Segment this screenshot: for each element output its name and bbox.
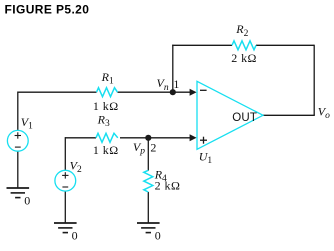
- wire V2 to R3 rail: [64, 137, 66, 170]
- resistor R3 zigzag: [96, 133, 118, 142]
- wire Vp node to R4: [147, 138, 149, 171]
- resistor R4 zigzag: [144, 170, 153, 192]
- wire V1 top to R1 left lead: [18, 91, 97, 93]
- svg-text:0: 0: [155, 228, 161, 242]
- svg-text:0: 0: [72, 228, 78, 242]
- ground (V1): [7, 188, 30, 198]
- wire R3 right lead to op-amp noninverting input: [120, 137, 190, 139]
- resistor R2 zigzag: [232, 41, 256, 50]
- wire feedback rail left of R2: [172, 44, 232, 46]
- plus/minus inside V1: [15, 132, 21, 147]
- wire V1 to ground: [17, 151, 19, 188]
- wire V1 vertical up: [17, 92, 19, 131]
- source V2 circle: [55, 170, 76, 191]
- minus sign at op-amp inverting input: [200, 89, 207, 91]
- wire R3 left lead: [65, 137, 96, 139]
- wire V2 to ground: [64, 191, 66, 223]
- ground (R4): [137, 223, 160, 233]
- svg-text:2: 2: [150, 140, 156, 154]
- source V1 circle: [7, 130, 28, 151]
- ground (V2): [54, 223, 77, 233]
- node Vp junction dot: [145, 135, 151, 141]
- svg-text:2 kΩ: 2 kΩ: [155, 179, 181, 193]
- resistor R1 zigzag: [97, 88, 118, 97]
- wire Vn node up to feedback rail: [172, 45, 174, 92]
- plus sign at op-amp noninverting input: [200, 137, 207, 144]
- plus/minus inside V2: [62, 172, 68, 187]
- svg-text:OUT: OUT: [232, 112, 257, 124]
- svg-text:0: 0: [24, 193, 30, 207]
- svg-text:1 kΩ: 1 kΩ: [93, 99, 119, 113]
- arrowhead into noninverting input: [190, 134, 197, 141]
- op-amp U1 triangle: [197, 81, 263, 149]
- wire right vertical feedback drop: [313, 45, 315, 116]
- node Vn junction dot: [170, 89, 176, 95]
- svg-text:2 kΩ: 2 kΩ: [231, 51, 257, 65]
- wire feedback rail right of R2: [256, 44, 314, 46]
- wire R4 to ground: [147, 192, 149, 223]
- svg-text:1 kΩ: 1 kΩ: [93, 143, 119, 157]
- svg-text:1: 1: [173, 77, 179, 91]
- svg-text:FIGURE P5.20: FIGURE P5.20: [5, 3, 90, 17]
- wire op-amp output: [263, 114, 315, 116]
- wire R1 right lead to op-amp inverting input: [118, 91, 191, 93]
- arrowhead into inverting input: [190, 89, 197, 96]
